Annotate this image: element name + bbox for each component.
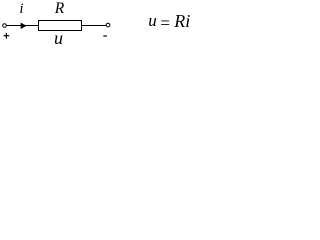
svg-text:u: u bbox=[54, 28, 63, 46]
current arrow i bbox=[21, 23, 27, 29]
svg-text:i: i bbox=[19, 1, 23, 17]
minus sign bbox=[103, 35, 107, 37]
background bbox=[0, 0, 200, 46]
node B (right terminal) bbox=[106, 23, 110, 27]
wire (resistor to right terminal) bbox=[82, 25, 107, 27]
svg-text:=: = bbox=[160, 13, 170, 32]
svg-text:u: u bbox=[148, 11, 157, 30]
wire (left terminal to resistor) bbox=[7, 25, 39, 27]
resistor R bbox=[39, 21, 82, 31]
node A (left terminal) bbox=[3, 24, 7, 28]
svg-text:R: R bbox=[54, 0, 65, 17]
svg-text:Ri: Ri bbox=[173, 11, 190, 31]
plus sign bbox=[4, 35, 10, 37]
